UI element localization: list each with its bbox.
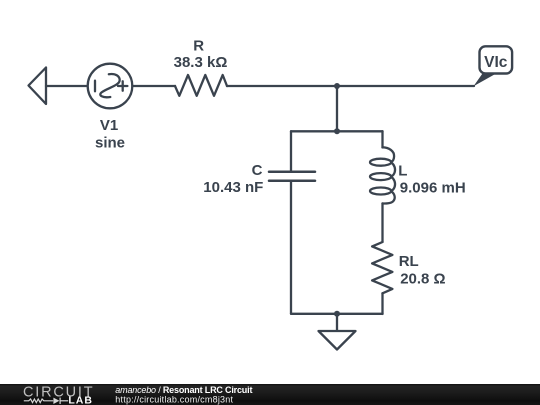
logo resistor-diode-LAB row — [24, 398, 68, 404]
svg-text:10.43 nF: 10.43 nF — [203, 179, 263, 196]
svg-text:VIc: VIc — [484, 54, 508, 71]
node junction rail — [334, 128, 340, 134]
svg-text:http://circuitlab.com/cm8j3nt: http://circuitlab.com/cm8j3nt — [115, 394, 233, 404]
resistor RL — [372, 242, 392, 293]
wire: inductor top lead — [381, 131, 383, 147]
net flag VIc — [474, 46, 513, 86]
svg-text:sine: sine — [95, 135, 125, 152]
wire: RL bottom lead — [381, 293, 383, 314]
svg-text:20.8 Ω: 20.8 Ω — [400, 271, 445, 288]
svg-text:9.096 mH: 9.096 mH — [400, 180, 466, 197]
svg-text:38.3 kΩ: 38.3 kΩ — [174, 54, 228, 71]
node junction top — [334, 83, 340, 89]
wire: cap bottom lead — [290, 182, 292, 314]
wire: node down — [336, 86, 338, 131]
net flag arrow (input, left) — [29, 68, 47, 105]
resistor R — [175, 75, 227, 96]
node junction bottom — [334, 311, 340, 317]
wire: L to RL — [381, 204, 383, 243]
wire: bottom rail — [291, 313, 383, 315]
svg-text:R: R — [193, 38, 204, 55]
wire: R to flag VIc — [227, 85, 474, 87]
inductor L — [370, 147, 395, 203]
svg-text:L: L — [398, 163, 407, 180]
voltage source V1 — [88, 64, 133, 109]
svg-text:C: C — [252, 162, 263, 179]
wire: flag to V1 — [46, 85, 88, 87]
capacitor C — [269, 172, 315, 181]
svg-text:RL: RL — [399, 253, 419, 270]
wire: V1 to R — [132, 85, 175, 87]
svg-text:V1: V1 — [100, 117, 118, 134]
svg-text:LAB: LAB — [68, 394, 93, 405]
wire: top rail — [291, 130, 383, 132]
ground — [319, 314, 356, 350]
wire: cap top lead — [290, 131, 292, 170]
